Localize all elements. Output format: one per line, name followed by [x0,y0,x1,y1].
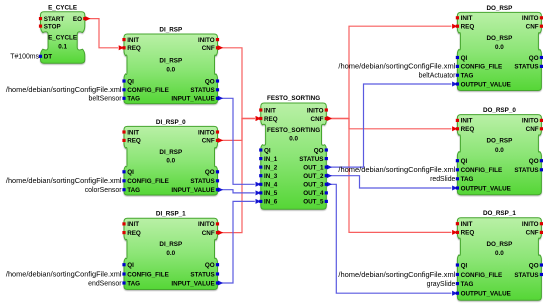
data wire FESTO_SORTING.OUT_3 to DO_RSP_1.OUTPUT_VALUE [326,182,457,296]
svg-text:INIT: INIT [127,221,139,228]
digital output FB DO_RSP_0 (redSlide) [456,107,543,195]
svg-text:DO_RSP_1: DO_RSP_1 [483,210,516,217]
svg-text:STATUS: STATUS [299,156,323,163]
data wire FESTO_SORTING.OUT_2 to DO_RSP_0.OUTPUT_VALUE [326,173,457,190]
svg-text:IN_4: IN_4 [264,182,278,189]
svg-text:QI: QI [461,55,468,62]
data wire FESTO_SORTING.OUT_1 to DO_RSP.OUTPUT_VALUE [326,82,457,170]
svg-text:OUTPUT_VALUE: OUTPUT_VALUE [461,291,511,298]
svg-text:QO: QO [529,158,539,165]
event wire DI_RSP_1.CNF to FESTO_SORTING.REQ [218,116,261,235]
svg-text:INITO: INITO [198,221,215,228]
svg-text:DO_RSP: DO_RSP [486,35,512,42]
svg-text:/home/debian/sortingConfigFile: /home/debian/sortingConfigFile.xml [338,64,455,71]
svg-text:CONFIG_FILE: CONFIG_FILE [461,167,503,174]
svg-text:0.0: 0.0 [166,250,175,257]
svg-text:/home/debian/sortingConfigFile: /home/debian/sortingConfigFile.xml [6,178,122,185]
svg-text:INITO: INITO [198,129,215,136]
svg-text:colorSensor: colorSensor [85,187,122,194]
event wire FESTO_SORTING.CNF to DO_RSP.REQ [326,24,457,121]
svg-text:DI_RSP_1: DI_RSP_1 [156,211,186,218]
svg-text:REQ: REQ [461,230,475,237]
svg-text:OUT_4: OUT_4 [303,190,324,197]
svg-text:INPUT_VALUE: INPUT_VALUE [171,187,214,194]
svg-text:E_CYCLE: E_CYCLE [48,35,77,42]
svg-text:QI: QI [127,262,134,269]
svg-text:QO: QO [529,55,539,62]
svg-text:DI_RSP: DI_RSP [159,58,182,65]
svg-text:IN_6: IN_6 [264,199,278,206]
svg-text:CNF: CNF [526,230,539,237]
svg-text:beltActuator: beltActuator [419,73,456,80]
digital output FB DO_RSP (beltActuator) [456,5,543,91]
svg-text:0.1: 0.1 [58,43,67,50]
svg-text:CNF: CNF [526,24,539,31]
event wire E1.EO to DI_RSP.REQ [85,16,124,50]
svg-text:REQ: REQ [127,45,141,52]
application FB FESTO_SORTING [259,95,328,209]
svg-text:STATUS: STATUS [190,87,214,94]
svg-text:CONFIG_FILE: CONFIG_FILE [461,64,503,71]
svg-text:CNF: CNF [311,116,324,123]
svg-text:/home/debian/sortingConfigFile: /home/debian/sortingConfigFile.xml [338,167,455,174]
svg-text:TAG: TAG [127,187,140,194]
svg-text:OUT_3: OUT_3 [303,182,324,189]
svg-text:INIT: INIT [461,118,473,125]
svg-text:DO_RSP: DO_RSP [486,241,512,248]
digital output FB DO_RSP_1 (graySlide) [456,210,543,300]
svg-text:QI: QI [127,78,134,85]
svg-text:QO: QO [314,147,324,154]
svg-text:QO: QO [205,262,215,269]
svg-text:DO_RSP: DO_RSP [486,138,512,145]
svg-text:T#100ms: T#100ms [10,54,39,61]
svg-text:CONFIG_FILE: CONFIG_FILE [127,271,169,278]
event wire DI_RSP_0.CNF to FESTO_SORTING.REQ [218,116,261,143]
svg-text:DI_RSP: DI_RSP [159,241,182,248]
svg-text:IN_1: IN_1 [264,156,278,163]
svg-text:INITO: INITO [307,107,324,114]
svg-text:REQ: REQ [127,138,141,145]
svg-text:QO: QO [205,169,215,176]
svg-text:OUT_1: OUT_1 [303,164,324,171]
svg-text:INIT: INIT [127,37,139,44]
svg-text:DO_RSP_0: DO_RSP_0 [483,107,516,114]
svg-text:CNF: CNF [202,45,215,52]
event wire DI_RSP.CNF to FESTO_SORTING.REQ [218,45,261,121]
svg-text:QO: QO [205,78,215,85]
svg-text:DI_RSP: DI_RSP [159,149,182,156]
svg-text:INIT: INIT [461,221,473,228]
svg-text:EO: EO [73,16,82,23]
svg-text:QI: QI [127,169,134,176]
data wire DI_RSP_0.INPUT_VALUE to FESTO_SORTING.IN_5 [218,187,261,195]
svg-text:STATUS: STATUS [514,272,538,279]
svg-text:TAG: TAG [461,281,474,288]
svg-text:TAG: TAG [461,176,474,183]
svg-text:INITO: INITO [198,37,215,44]
svg-text:DI_RSP: DI_RSP [159,26,182,33]
svg-text:START: START [44,16,65,23]
svg-text:redSlide: redSlide [430,176,455,183]
svg-text:STATUS: STATUS [190,271,214,278]
svg-text:IN_2: IN_2 [264,164,278,171]
svg-text:STATUS: STATUS [514,64,538,71]
svg-text:0.0: 0.0 [495,44,504,51]
svg-text:QI: QI [461,158,468,165]
svg-text:graySlide: graySlide [427,281,456,288]
svg-text:TAG: TAG [127,280,140,287]
svg-text:INIT: INIT [461,15,473,22]
svg-text:CONFIG_FILE: CONFIG_FILE [127,178,169,185]
event generator E1 (E_CYCLE) [39,4,86,63]
svg-text:CNF: CNF [202,138,215,145]
svg-text:beltSensor: beltSensor [89,96,123,103]
svg-text:0.0: 0.0 [166,67,175,74]
svg-text:INITO: INITO [522,15,539,22]
svg-text:OUTPUT_VALUE: OUTPUT_VALUE [461,81,511,88]
svg-text:REQ: REQ [127,230,141,237]
svg-text:0.0: 0.0 [166,158,175,165]
digital input FB DI_RSP_0 (colorSensor) [122,119,219,195]
svg-text:FESTO_SORTING: FESTO_SORTING [267,127,320,134]
svg-text:endSensor: endSensor [88,280,122,287]
svg-text:REQ: REQ [461,126,475,133]
svg-text:0.0: 0.0 [289,136,298,143]
svg-text:E_CYCLE: E_CYCLE [48,4,77,11]
svg-text:0.0: 0.0 [495,147,504,154]
svg-text:QI: QI [264,147,271,154]
svg-text:INIT: INIT [264,107,276,114]
svg-text:/home/debian/sortingConfigFile: /home/debian/sortingConfigFile.xml [6,271,122,278]
svg-text:DI_RSP_0: DI_RSP_0 [156,119,186,126]
svg-text:IN_5: IN_5 [264,190,278,197]
svg-text:INITO: INITO [522,118,539,125]
svg-text:INPUT_VALUE: INPUT_VALUE [171,280,214,287]
svg-text:STATUS: STATUS [190,178,214,185]
svg-text:CNF: CNF [526,126,539,133]
svg-text:QO: QO [529,262,539,269]
data wire DI_RSP.INPUT_VALUE to FESTO_SORTING.IN_4 [218,96,261,187]
svg-text:CONFIG_FILE: CONFIG_FILE [461,272,503,279]
svg-text:OUT_5: OUT_5 [303,199,324,206]
svg-text:OUTPUT_VALUE: OUTPUT_VALUE [461,185,511,192]
svg-text:TAG: TAG [461,73,474,80]
event wire FESTO_SORTING.CNF to DO_RSP_0.REQ [326,116,457,131]
svg-text:/home/debian/sortingConfigFile: /home/debian/sortingConfigFile.xml [338,272,455,279]
digital input FB DI_RSP (beltSensor) [122,26,219,103]
svg-text:REQ: REQ [264,116,278,123]
svg-text:CNF: CNF [202,230,215,237]
svg-text:STATUS: STATUS [514,167,538,174]
svg-text:INPUT_VALUE: INPUT_VALUE [171,96,214,103]
svg-text:STOP: STOP [44,23,61,30]
svg-text:FESTO_SORTING: FESTO_SORTING [267,95,320,102]
svg-text:/home/debian/sortingConfigFile: /home/debian/sortingConfigFile.xml [6,87,122,94]
svg-text:INITO: INITO [522,221,539,228]
svg-text:DT: DT [44,54,53,61]
svg-text:IN_3: IN_3 [264,173,278,180]
svg-text:DO_RSP: DO_RSP [486,5,512,12]
svg-text:INIT: INIT [127,129,139,136]
svg-text:OUT_2: OUT_2 [303,173,324,180]
event wire FESTO_SORTING.CNF to DO_RSP_1.REQ [326,116,457,235]
data wire DI_RSP_1.INPUT_VALUE to FESTO_SORTING.IN_6 [218,199,261,286]
svg-text:CONFIG_FILE: CONFIG_FILE [127,87,169,94]
svg-text:TAG: TAG [127,96,140,103]
svg-text:REQ: REQ [461,24,475,31]
svg-text:QI: QI [461,262,468,269]
svg-text:0.0: 0.0 [495,250,504,257]
digital input FB DI_RSP_1 (endSensor) [122,211,219,290]
